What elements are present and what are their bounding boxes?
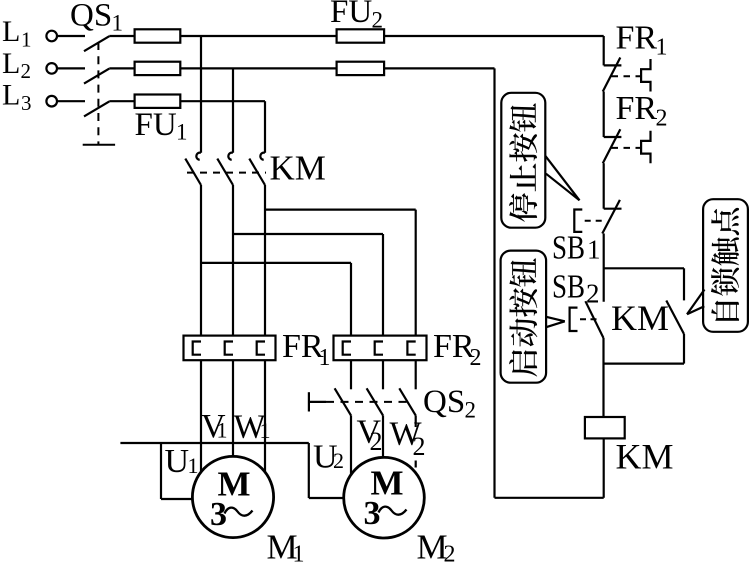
wire control left return (493, 68, 495, 497)
wire tap phase2 to M2 branch (233, 233, 383, 235)
thermal relay FR1 heater (225, 342, 233, 355)
motor M1 circle (192, 456, 273, 537)
svg-text:3: 3 (364, 495, 381, 532)
wire L2 row (109, 67, 134, 69)
svg-text:2: 2 (465, 398, 477, 423)
thermal contact FR2 (604, 136, 622, 138)
fuse FU2 element 1 (384, 35, 604, 37)
thermal relay FR2 heater (407, 342, 415, 355)
svg-text:2: 2 (413, 432, 426, 461)
thermal relay FR2 box (334, 336, 427, 361)
wire self-lock branch top (604, 267, 684, 269)
wire FR1 to M1 phase2 (232, 360, 234, 456)
auxiliary contact KM (self-lock) (666, 301, 684, 335)
wire coil to bottom (603, 438, 605, 497)
svg-text:1: 1 (587, 235, 601, 265)
switch QS1 pole 3 (57, 100, 85, 102)
svg-text:KM: KM (270, 149, 326, 188)
wire FR1 to M1 phase1 (200, 360, 202, 472)
svg-text:3: 3 (21, 91, 32, 115)
callout box stop button (ting zhi an niu) (501, 93, 545, 228)
pushbutton SB2 (start, NO) (585, 301, 603, 338)
svg-text:QS: QS (423, 384, 465, 420)
switch QS1 pole 1 (57, 35, 85, 37)
switch QS2 linkage handle (308, 392, 310, 411)
wire SB2 to coil (602, 338, 604, 417)
thermal relay FR1 box (184, 336, 276, 361)
fuse FU1 element 2 (180, 67, 336, 69)
contactor KM main contact 1 (196, 153, 201, 160)
svg-text:1: 1 (656, 35, 668, 61)
svg-text:KM: KM (616, 437, 674, 477)
fuse FU2 element 2 (384, 67, 494, 69)
fuse FU1 element 3 (180, 100, 265, 102)
wire L3 row (109, 100, 134, 102)
svg-text:L: L (2, 15, 20, 48)
thermal relay FR1 heater (193, 342, 201, 355)
svg-text:L: L (2, 79, 20, 112)
wire FR2 to SB1 (603, 163, 605, 209)
svg-text:2: 2 (370, 427, 383, 456)
svg-text:2: 2 (333, 448, 344, 473)
svg-text:L: L (2, 47, 20, 80)
svg-text:1: 1 (21, 28, 32, 52)
svg-text:FR: FR (616, 20, 658, 57)
svg-text:QS: QS (70, 0, 112, 33)
wire U feeder (120, 442, 308, 444)
switch QS2 pole 3 (415, 360, 417, 389)
switch QS2 pole 1 (350, 360, 352, 389)
svg-text:1: 1 (260, 418, 271, 443)
wire U2 lead (308, 443, 310, 498)
fuse FU1 element 1 (180, 35, 336, 37)
svg-text:FU: FU (330, 0, 372, 30)
svg-text:1: 1 (176, 120, 188, 145)
svg-text:2: 2 (444, 542, 456, 563)
switch QS1 pole 2 (57, 67, 85, 69)
svg-text:U: U (165, 443, 190, 480)
thermal relay FR2 heater (343, 342, 351, 355)
wire U1 lead (160, 443, 162, 499)
callout text start button (509, 258, 537, 376)
svg-text:2: 2 (656, 106, 668, 132)
thermal relay FR1 heater (257, 342, 265, 355)
svg-text:2: 2 (372, 8, 384, 33)
svg-text:1: 1 (188, 453, 199, 478)
callout text self-lock contact (711, 208, 739, 321)
thermal relay FR2 heater (375, 342, 383, 355)
svg-text:1: 1 (217, 418, 228, 443)
wire SB1 to SB2 (603, 234, 605, 302)
svg-text:SB: SB (552, 230, 585, 267)
wire phase3 drop (264, 101, 266, 153)
callout box self-lock contact (zi suo chu dian) (703, 199, 748, 332)
svg-text:1: 1 (293, 542, 305, 563)
wire self-lock branch bottom (604, 363, 684, 365)
wire control bottom return (495, 497, 604, 499)
wire phase2 drop (232, 68, 234, 152)
svg-text:2: 2 (586, 279, 600, 309)
wire control feed top (603, 36, 605, 65)
svg-text:3: 3 (210, 496, 227, 533)
svg-text:KM: KM (611, 298, 669, 338)
wire FR1 to M1 phase3 (264, 360, 266, 471)
callout box start button (qi dong an niu) (501, 251, 546, 383)
coil KM (585, 417, 625, 438)
wire L1 row (109, 35, 134, 37)
svg-text:1: 1 (112, 11, 124, 36)
pushbutton SB1 (stop, NC) (604, 208, 622, 210)
wire tap phase3 to M2 branch (265, 209, 416, 211)
wire tap phase1 to M2 branch (201, 262, 351, 264)
svg-text:2: 2 (470, 345, 482, 371)
contactor KM main contact 3 (260, 153, 265, 160)
switch QS1 linkage (97, 42, 99, 145)
switch QS2 pole 2 (382, 360, 384, 389)
contactor KM linkage (187, 172, 266, 174)
svg-text:FR: FR (616, 90, 658, 127)
svg-text:2: 2 (21, 59, 32, 83)
wire FR1 to FR2 (603, 92, 605, 138)
motor M2 circle (344, 457, 425, 538)
wire phase1 drop (200, 36, 202, 153)
svg-text:FU: FU (135, 107, 177, 143)
thermal contact FR1 (604, 64, 622, 66)
callout text stop button (509, 103, 537, 222)
contactor KM main contact 2 (228, 153, 233, 160)
svg-text:1: 1 (319, 345, 331, 371)
svg-text:SB: SB (552, 269, 585, 306)
